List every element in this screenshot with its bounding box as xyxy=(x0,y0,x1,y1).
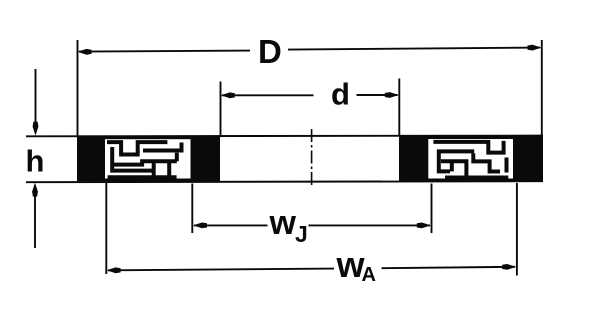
arrowheads xyxy=(32,45,541,274)
arrow wJ left xyxy=(193,223,207,229)
arrow D right xyxy=(528,45,542,51)
arrow d right xyxy=(385,92,399,98)
arrow d left xyxy=(221,92,235,98)
lowest bar xyxy=(108,175,177,179)
white-square right wall xyxy=(167,163,171,176)
left winding window (white) xyxy=(105,139,191,178)
svg-text:D: D xyxy=(258,33,282,70)
left winding meander xyxy=(107,142,182,177)
dimension line wA xyxy=(108,269,334,271)
inner step: left bar up to right bar xyxy=(114,161,177,164)
extension line wA left xyxy=(105,183,107,274)
white-square left wall xyxy=(152,162,156,177)
svg-text:A: A xyxy=(362,264,376,286)
arrow wA left xyxy=(107,267,121,273)
dimension extension line D left xyxy=(77,40,79,136)
svg-text:h: h xyxy=(26,143,45,178)
dimension extension line d left xyxy=(220,82,222,136)
right winding window (white) xyxy=(428,139,513,179)
centre line (dash-dot) xyxy=(311,129,313,188)
outer left channel down and bottom xyxy=(112,147,152,171)
svg-text:d: d xyxy=(331,77,350,112)
white-square left wall xyxy=(450,163,454,172)
dimension extension line D right xyxy=(541,40,543,136)
bar over white square + right wall xyxy=(441,161,466,176)
right inner vertical xyxy=(505,158,509,173)
arrow h up xyxy=(32,183,38,197)
extension line wJ left xyxy=(191,184,193,234)
arrow h down xyxy=(33,122,39,136)
mid bar, left hook down, bottom stub xyxy=(439,151,474,171)
top bar with U dip (notch opens to top) xyxy=(107,142,167,154)
h arrow line bottom xyxy=(34,194,36,248)
right gasket section: black body xyxy=(399,136,543,181)
arrow wA right xyxy=(502,264,516,270)
extension line wJ right xyxy=(431,184,433,234)
dimension line d xyxy=(222,94,314,96)
top bar with right U notch xyxy=(433,141,503,153)
dimension line D xyxy=(79,51,250,52)
short vertical under mid-right bar xyxy=(175,153,179,162)
gasket top surface line xyxy=(26,135,543,138)
arrow wJ right xyxy=(417,223,431,229)
staircase down right xyxy=(473,153,500,171)
h arrow line top xyxy=(35,69,37,124)
dimension extension line d right xyxy=(398,79,400,136)
right winding meander xyxy=(433,141,508,178)
extension line wA right xyxy=(516,183,518,276)
svg-text:J: J xyxy=(295,221,308,247)
lowest bar xyxy=(445,176,508,180)
dimension line wJ xyxy=(194,224,268,226)
mid-right bar with up hook xyxy=(143,143,182,151)
left gasket section: black body xyxy=(77,136,220,181)
arrow D left xyxy=(78,49,92,55)
svg-text:w: w xyxy=(269,204,297,242)
gasket bottom surface line xyxy=(26,181,543,182)
